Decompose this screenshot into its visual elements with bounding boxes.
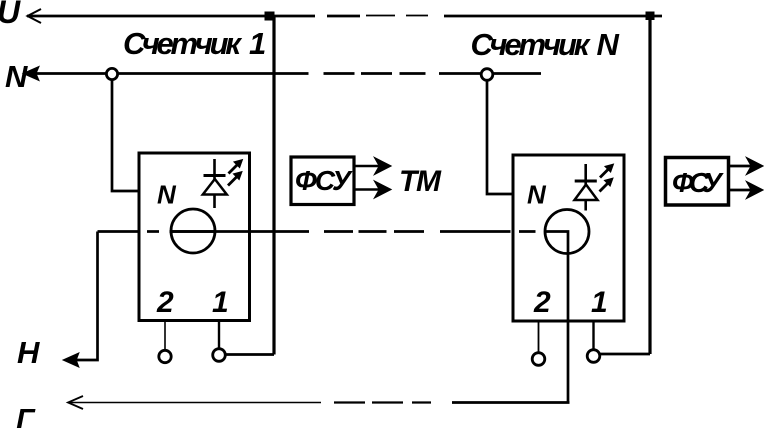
svg-text:1: 1 (249, 26, 266, 61)
svg-text:2: 2 (533, 286, 551, 319)
svg-text:ФСУ: ФСУ (295, 165, 353, 196)
svg-text:2: 2 (156, 286, 174, 319)
svg-text:N: N (157, 180, 177, 210)
svg-text:Счетчик: Счетчик (471, 27, 591, 62)
svg-text:U: U (0, 0, 21, 30)
svg-text:Н: Н (17, 335, 40, 370)
svg-text:N: N (5, 59, 28, 94)
svg-text:N: N (597, 27, 620, 62)
svg-text:Г: Г (16, 404, 36, 428)
svg-text:1: 1 (212, 286, 229, 319)
svg-text:ТМ: ТМ (399, 165, 442, 198)
svg-text:ФСУ: ФСУ (672, 167, 724, 198)
svg-text:1: 1 (591, 286, 608, 319)
svg-text:Счетчик: Счетчик (123, 26, 242, 61)
svg-text:N: N (527, 180, 547, 210)
